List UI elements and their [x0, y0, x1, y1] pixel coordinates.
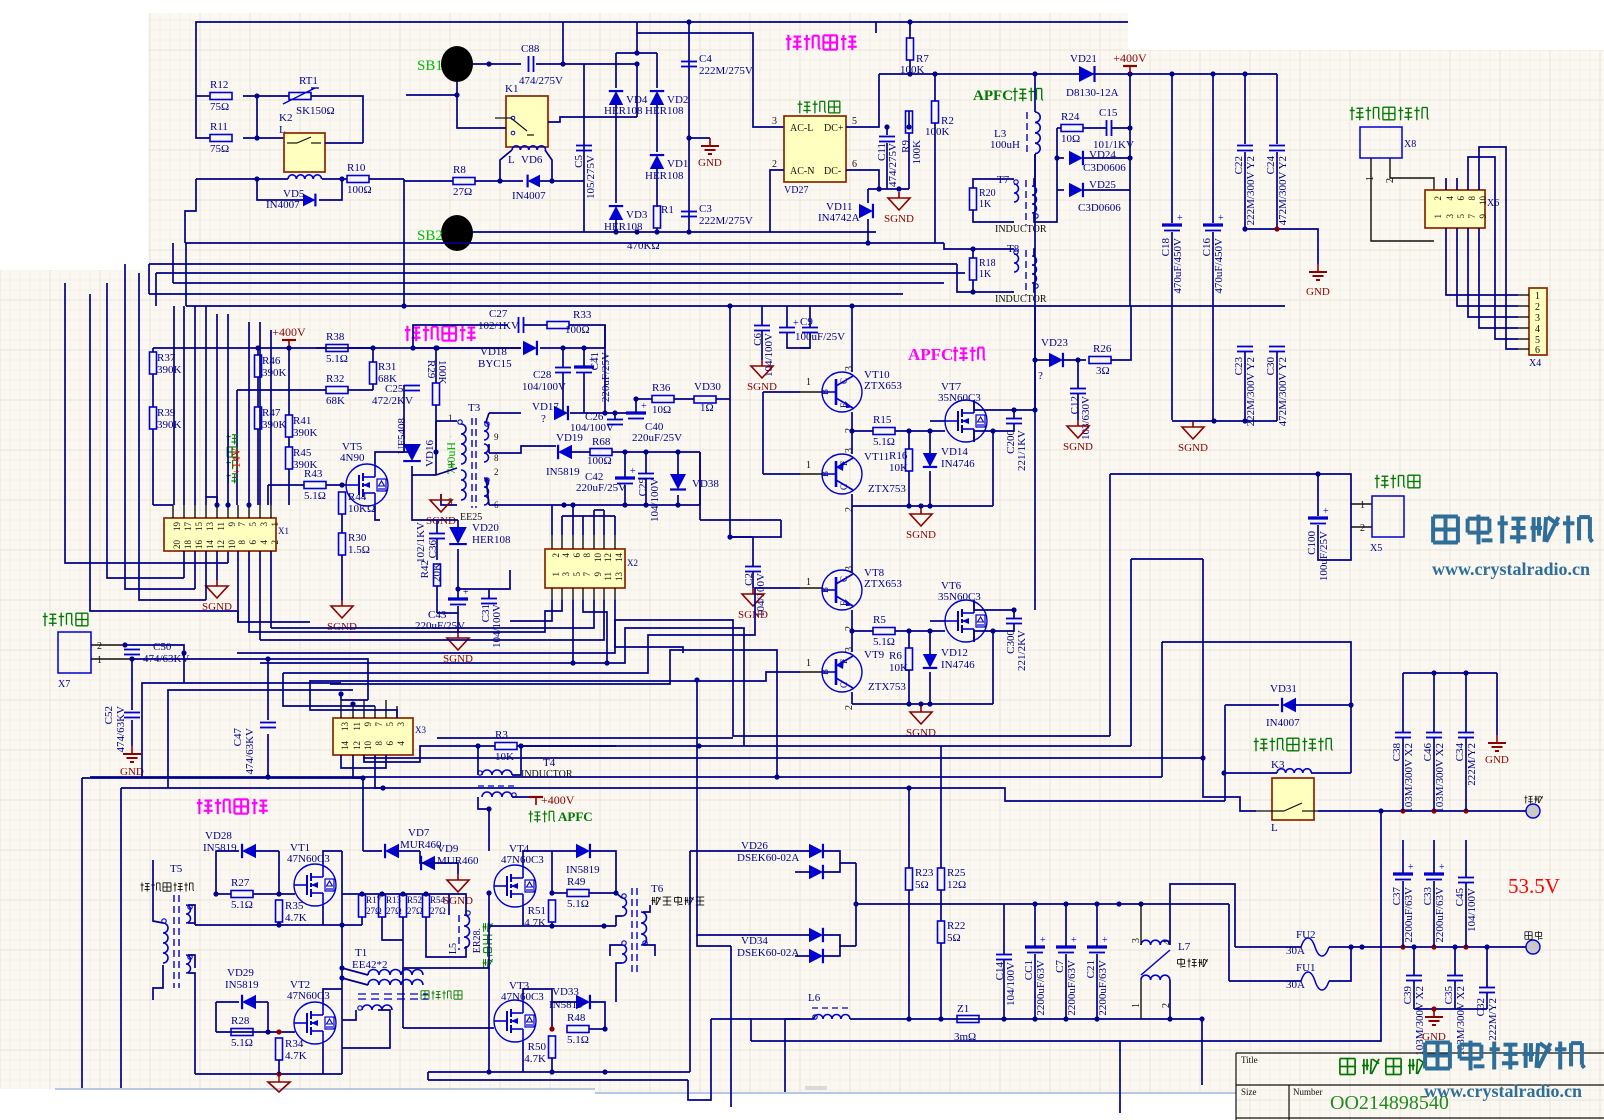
wire out bus 1019	[850, 1018, 1141, 1020]
terminal t3b	[485, 422, 489, 426]
junction d69	[1011, 407, 1016, 412]
svg-text:6: 6	[1456, 196, 1466, 201]
diode VD16	[403, 444, 421, 461]
wire vt3 drain	[523, 989, 552, 1002]
svg-text:222M/Y2: 222M/Y2	[1466, 743, 1478, 786]
svg-text:VD31: VD31	[1270, 683, 1297, 695]
svg-text:AC-L: AC-L	[790, 123, 813, 134]
svg-text:R44: R44	[348, 491, 367, 503]
junction d3	[254, 176, 259, 181]
wire neg out	[1318, 810, 1526, 812]
svg-text:8: 8	[582, 553, 592, 558]
resistor R27	[231, 877, 253, 911]
svg-text:R1: R1	[661, 204, 674, 216]
capacitor C32	[1475, 988, 1499, 1041]
wire v186	[185, 243, 187, 306]
wire c45 up	[1465, 840, 1467, 877]
svg-text:102/1KV: 102/1KV	[478, 320, 519, 332]
wire x2 stub top 3	[582, 535, 584, 549]
diode VD2	[650, 91, 664, 105]
junction dl7p2	[1167, 1016, 1172, 1021]
wire x8 pin2	[1390, 158, 1434, 190]
svg-text:75Ω: 75Ω	[210, 143, 229, 155]
junction d109	[339, 975, 344, 980]
capacitor C9	[802, 328, 818, 333]
wire c200 v	[1013, 410, 1015, 418]
terminal t3c	[485, 478, 489, 482]
wire vt8 top	[851, 506, 853, 572]
junction d108	[339, 965, 344, 970]
terminal 正极	[1526, 940, 1540, 954]
junction d122	[549, 1069, 554, 1074]
wire x4 stub 4	[1518, 327, 1529, 329]
connector connector X3	[333, 718, 413, 755]
svg-text:R49: R49	[567, 876, 586, 888]
svg-text:14: 14	[340, 741, 350, 751]
svg-text:R20: R20	[979, 188, 996, 199]
diode VD1	[650, 155, 664, 169]
label net 后风扇	[1375, 475, 1420, 489]
junction d91	[181, 650, 186, 655]
resistor R50	[549, 1036, 556, 1058]
wire v139	[139, 273, 206, 600]
junction d44	[214, 502, 219, 507]
svg-text:K1: K1	[505, 83, 518, 95]
resistor R22	[938, 921, 945, 943]
wire r16 dn	[908, 471, 910, 506]
svg-text:4.7K: 4.7K	[524, 1053, 546, 1065]
capacitor C25	[404, 386, 420, 391]
diode VD26b	[809, 865, 823, 879]
junction d151	[1463, 808, 1468, 813]
svg-text:IN5819: IN5819	[203, 842, 237, 854]
svg-text:100uH: 100uH	[990, 139, 1020, 151]
svg-text:222M/300V Y2: 222M/300V Y2	[1245, 357, 1257, 426]
svg-text:3: 3	[844, 366, 855, 371]
svg-text:27Ω: 27Ω	[366, 906, 382, 916]
transistor VT8	[820, 570, 862, 610]
wire x3 up5	[385, 700, 387, 718]
svg-text:20: 20	[172, 540, 182, 550]
junction d114	[486, 890, 491, 895]
wire out bus 1019b	[1141, 1018, 1202, 1020]
terminal t4a	[478, 771, 482, 775]
svg-text:R24: R24	[1061, 111, 1080, 123]
junction d29	[401, 303, 406, 308]
svg-text:C21: C21	[1085, 960, 1097, 978]
core T3 core a	[471, 418, 473, 508]
svg-text:E: E	[839, 658, 849, 664]
svg-text:4: 4	[259, 540, 269, 545]
transistor VT11	[820, 454, 862, 494]
wire row264	[149, 263, 957, 265]
wire t1 w1 l	[342, 968, 368, 975]
wire x1 stub 6	[237, 505, 239, 518]
svg-text:5: 5	[1456, 214, 1466, 219]
svg-text:5.1Ω: 5.1Ω	[873, 436, 895, 448]
svg-text:C5: C5	[573, 155, 585, 168]
svg-text:3: 3	[844, 448, 855, 453]
junction d89	[122, 642, 127, 647]
wire c45 dn	[1465, 883, 1467, 947]
svg-text:CC1: CC1	[1023, 960, 1035, 980]
wire r37 v	[152, 348, 154, 352]
wire r48 r	[589, 1028, 605, 1030]
electrolytic capacitor C33	[1422, 862, 1446, 943]
wire x2 stub bot 2	[572, 588, 574, 600]
svg-text:390K: 390K	[262, 419, 287, 431]
wire vd31 r	[1293, 704, 1351, 706]
junction d121	[486, 1069, 491, 1074]
wire v268	[267, 485, 269, 505]
power +400V bridge	[529, 797, 543, 805]
wire c31 up	[488, 589, 490, 598]
svg-text:R32: R32	[326, 373, 344, 385]
wire vd31 l	[1225, 704, 1279, 706]
svg-text:10K: 10K	[889, 462, 908, 474]
wire x2 stub top 4	[593, 535, 595, 549]
junction d144	[1431, 1006, 1436, 1011]
capacitor C31	[481, 599, 497, 604]
svg-text:2: 2	[1385, 178, 1396, 183]
wire t5 r2 top	[188, 955, 195, 968]
wire vt6 gate	[930, 620, 945, 622]
ground SGND mains	[884, 192, 914, 225]
junction d149	[1400, 808, 1405, 813]
svg-text:470uF/450V: 470uF/450V	[1213, 238, 1225, 294]
capacitor C39	[1402, 976, 1426, 1056]
junction d124	[853, 901, 858, 906]
svg-text:R36: R36	[652, 382, 671, 394]
wire r16 v	[908, 431, 910, 449]
wire v363	[362, 778, 364, 851]
svg-text:474/63KV: 474/63KV	[115, 706, 127, 753]
resistor R6	[906, 648, 913, 670]
junction d141	[1452, 944, 1457, 949]
svg-text:VD6: VD6	[521, 154, 543, 166]
svg-text:4.7K: 4.7K	[285, 912, 307, 924]
electrolytic capacitor C41	[574, 355, 595, 373]
wire ac top to rect	[637, 22, 784, 127]
svg-text:INDUCTOR: INDUCTOR	[995, 294, 1047, 305]
wire r18 stub	[972, 249, 974, 258]
wire vt7 drain	[974, 400, 1035, 410]
wire t6 l1 bot	[616, 916, 622, 926]
wire top rail right	[875, 22, 877, 33]
wire vd20 dn	[457, 549, 459, 560]
svg-text:R31: R31	[378, 361, 396, 373]
wire vt7 gate	[930, 420, 945, 422]
wire hv rail 3	[1172, 73, 1277, 75]
wire c28 dn	[562, 373, 564, 413]
junction d9	[497, 178, 502, 183]
ground GND mid	[1488, 735, 1506, 751]
svg-text:T7: T7	[997, 174, 1010, 186]
wire r43 r	[326, 484, 346, 486]
svg-text:IN5819: IN5819	[546, 466, 580, 478]
svg-text:VD27: VD27	[784, 185, 808, 196]
svg-text:ZTX753: ZTX753	[868, 681, 906, 693]
resistor R34	[276, 1038, 283, 1060]
inductor T5 left	[163, 923, 168, 963]
junction d50	[612, 410, 617, 415]
electrolytic capacitor CC1	[1023, 935, 1047, 1016]
core T6 core b	[636, 888, 638, 975]
svg-text:3: 3	[561, 572, 571, 577]
svg-text:19: 19	[172, 522, 182, 532]
wire v156	[155, 273, 157, 306]
wire vd16 up	[411, 444, 413, 452]
diode VD33	[576, 995, 590, 1009]
electrolytic capacitor C100	[1306, 506, 1330, 581]
diode VD29	[242, 995, 256, 1009]
wire vd20 up	[457, 520, 459, 527]
wire t4 in	[477, 746, 479, 775]
wire row273	[156, 272, 965, 274]
wire x3 dn3	[364, 746, 448, 762]
wire SB1 down	[406, 82, 457, 95]
wire RT1-right	[311, 96, 363, 143]
junction d45	[225, 502, 230, 507]
svg-text:8: 8	[1467, 196, 1477, 201]
junction d100	[486, 806, 491, 811]
wire x6 top stub 1	[1456, 178, 1458, 190]
wire aux mid join	[437, 519, 458, 521]
wire t3 p6b	[486, 478, 489, 505]
wire t3 sec join	[486, 413, 489, 422]
svg-text:5: 5	[385, 722, 395, 727]
wire cc1 dn	[1034, 954, 1036, 1019]
svg-text:105/275V: 105/275V	[585, 155, 597, 199]
capacitor C11	[879, 137, 895, 142]
inductor T8 left	[1014, 254, 1019, 272]
wire x2 b6	[615, 600, 683, 653]
wire R9C11 down	[886, 143, 888, 189]
svg-text:R25: R25	[947, 867, 966, 879]
wire apfc out v	[1034, 306, 1036, 610]
inductor T3 sec1	[484, 422, 489, 440]
svg-text:1: 1	[1535, 291, 1540, 302]
wire r24-c15	[1083, 127, 1106, 129]
svg-text:221/2KV: 221/2KV	[1016, 630, 1028, 671]
wire vd29 rv	[267, 1002, 269, 1032]
svg-text:www.crystalradio.cn: www.crystalradio.cn	[1424, 1081, 1582, 1101]
capacitor C200	[1006, 419, 1022, 424]
junction d56	[570, 502, 575, 507]
svg-text:VD1: VD1	[667, 158, 688, 170]
wire r23 top f	[908, 788, 910, 840]
wire l6 l	[785, 1018, 814, 1020]
wire vd2-vd1	[656, 105, 658, 152]
inductor L6 coil	[814, 1015, 850, 1020]
svg-text:L: L	[508, 154, 515, 166]
wire vd33 l	[552, 1001, 577, 1003]
svg-text:75Ω: 75Ω	[210, 101, 229, 113]
wire c32 up	[1486, 947, 1488, 987]
wire rbank b	[342, 924, 362, 926]
svg-text:6: 6	[248, 540, 258, 545]
svg-text:HER108: HER108	[645, 105, 684, 117]
electrolytic capacitor C43	[448, 587, 469, 605]
svg-text:10: 10	[363, 741, 373, 751]
wire relay top loop	[1162, 642, 1351, 773]
svg-text:5.1Ω: 5.1Ω	[231, 1037, 253, 1049]
svg-text:+: +	[641, 401, 647, 412]
junction d150	[1431, 808, 1436, 813]
wire row1074	[195, 1073, 342, 1075]
capacitor C22	[1233, 146, 1257, 226]
svg-text:+: +	[1218, 213, 1224, 224]
wire r25 dn	[940, 890, 942, 921]
svg-text:R28: R28	[231, 1015, 250, 1027]
wire vd12 dn	[929, 672, 931, 704]
wire vd25 r	[1084, 189, 1130, 191]
svg-text:HER108: HER108	[604, 105, 643, 117]
svg-text:474/63KV: 474/63KV	[244, 728, 256, 775]
label 正极	[1525, 931, 1543, 940]
junction d99	[518, 743, 523, 748]
svg-text:APFC: APFC	[908, 345, 953, 364]
wire c88 vert	[562, 22, 564, 64]
label 谐振电感	[483, 923, 493, 968]
wire r18 up	[944, 243, 1014, 249]
transformer L7 link	[1141, 950, 1170, 975]
wire sec1 out	[489, 412, 521, 414]
label T1 sub	[421, 991, 462, 1000]
wire row243	[185, 242, 944, 244]
wire x3 net a	[341, 699, 368, 701]
junction d153	[1463, 670, 1468, 675]
wire r24 wire	[1057, 127, 1061, 129]
junction d92	[265, 656, 270, 661]
svg-text:R54: R54	[430, 895, 446, 905]
junction d132	[1032, 1016, 1037, 1021]
wire x2 t2	[561, 516, 563, 535]
svg-text:K2: K2	[279, 112, 292, 124]
junction d118	[601, 923, 606, 928]
svg-text:+14V: +14V	[229, 447, 243, 475]
wire vt2 gate row	[216, 1031, 295, 1033]
inductor T3 sec3	[484, 478, 489, 505]
svg-text:R5: R5	[873, 614, 886, 626]
svg-text:C9: C9	[800, 316, 813, 328]
wire c35 dn	[1454, 981, 1456, 1009]
wire sjog2	[168, 690, 353, 788]
junction d26	[876, 186, 881, 191]
wire r31 dn	[372, 384, 374, 390]
wire vt5 src	[375, 506, 380, 520]
svg-text:7: 7	[237, 522, 247, 527]
wire vd26 feed	[690, 850, 810, 852]
svg-text:C22: C22	[1233, 156, 1245, 174]
svg-text:+: +	[1177, 213, 1183, 224]
junction d12	[686, 19, 691, 24]
svg-text:MUR460: MUR460	[400, 839, 442, 851]
wire v82	[81, 778, 83, 1088]
ground GND c52	[123, 746, 141, 762]
svg-text:C3: C3	[699, 203, 712, 215]
svg-text:R16: R16	[889, 450, 908, 462]
svg-text:221/1KV: 221/1KV	[1016, 430, 1028, 471]
diode VD5	[303, 194, 315, 207]
wire c18 v	[1171, 74, 1173, 223]
wire l7 p3 w	[1140, 904, 1142, 945]
inductor T1 w1	[368, 970, 423, 975]
svg-text:12: 12	[603, 553, 613, 562]
wire l5 top	[449, 894, 466, 915]
wire vd26 b feed	[795, 871, 810, 873]
wire r49 r	[589, 892, 616, 894]
wire vd29 lv	[215, 1002, 217, 1032]
junction d123	[602, 1069, 607, 1074]
junction dsr2	[1242, 418, 1247, 423]
svg-text:ZTX653: ZTX653	[864, 380, 902, 392]
svg-text:9: 9	[1478, 214, 1488, 219]
resistor R33	[547, 322, 569, 329]
svg-text:9: 9	[494, 432, 499, 442]
electrolytic capacitor C42	[615, 466, 636, 484]
mosfet VT6	[945, 600, 987, 642]
resistor R13	[379, 895, 386, 917]
wire v763a	[762, 392, 764, 474]
wire out bus 904	[856, 903, 1229, 905]
svg-text:2: 2	[270, 540, 280, 545]
svg-text:R51: R51	[528, 905, 546, 917]
svg-text:R38: R38	[326, 331, 345, 343]
label net 温控传感器	[1350, 107, 1429, 121]
svg-text:1: 1	[806, 460, 811, 471]
ground SGND apfc2	[906, 706, 936, 739]
wire r3 l	[448, 745, 495, 747]
junction d63	[560, 345, 565, 350]
svg-text:103M/300V X2: 103M/300V X2	[1434, 743, 1446, 813]
svg-text:5: 5	[572, 572, 582, 577]
capacitor C8	[779, 328, 795, 333]
junction d38	[1274, 226, 1279, 231]
wire vt7 src	[974, 431, 993, 442]
wire x4 stub 3	[1518, 316, 1529, 318]
resistor R35	[276, 900, 283, 922]
inductor T7 right	[1032, 186, 1037, 213]
svg-text:11: 11	[352, 722, 362, 731]
svg-text:VD18: VD18	[480, 346, 507, 358]
wire left drop1	[185, 179, 196, 243]
wire vd1 down	[656, 169, 658, 207]
wire t4 w1r	[512, 746, 521, 775]
sheet edge lines	[55, 1088, 595, 1090]
ground SGND c6	[747, 360, 777, 393]
wire x1 maze 3	[194, 306, 196, 505]
wire c24 v	[1276, 74, 1278, 144]
svg-text:+: +	[1323, 506, 1329, 517]
watermark 1 矿石收音机	[1433, 515, 1592, 545]
diode VD17	[554, 406, 568, 420]
inductor T3 sec2	[484, 444, 489, 462]
svg-text:2200uF/63V: 2200uF/63V	[1035, 960, 1047, 1016]
resistor R37	[150, 352, 182, 376]
svg-text:C25: C25	[385, 383, 404, 395]
wire fu1 r	[1329, 947, 1351, 981]
junction d53	[643, 449, 648, 454]
wire x3 net c	[283, 673, 375, 706]
svg-text:3: 3	[259, 522, 269, 527]
svg-text:2: 2	[772, 159, 777, 170]
diode VD20	[449, 527, 467, 544]
button SB2	[441, 215, 473, 251]
wire c22 v	[1244, 74, 1246, 144]
inductor T7 left	[1014, 184, 1019, 202]
power +400V main	[1113, 51, 1147, 74]
